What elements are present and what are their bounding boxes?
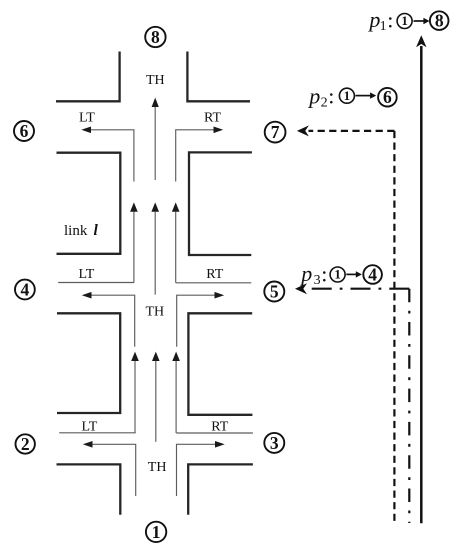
svg-text:1: 1 [401, 13, 408, 28]
svg-text:2: 2 [21, 434, 30, 454]
svg-text:TH: TH [146, 305, 165, 320]
svg-text:7: 7 [271, 122, 280, 142]
svg-text:LT: LT [82, 420, 98, 435]
svg-text:p: p [367, 7, 380, 32]
svg-text:8: 8 [435, 10, 444, 30]
svg-text:link: link [64, 223, 88, 239]
svg-text:1: 1 [152, 522, 161, 542]
svg-text:8: 8 [151, 27, 160, 47]
svg-text:RT: RT [211, 420, 228, 435]
svg-text:l: l [94, 222, 99, 239]
svg-text:LT: LT [79, 111, 95, 126]
svg-text:2: 2 [321, 96, 328, 111]
svg-text:3: 3 [314, 273, 321, 288]
svg-text::: : [387, 7, 393, 32]
svg-text:RT: RT [204, 111, 221, 126]
svg-text:p: p [307, 83, 320, 108]
svg-text:6: 6 [383, 87, 392, 107]
svg-text:1: 1 [344, 88, 351, 103]
svg-text:TH: TH [146, 73, 165, 88]
svg-text:6: 6 [20, 121, 29, 141]
svg-text:LT: LT [79, 267, 95, 282]
svg-text:1: 1 [380, 19, 387, 34]
svg-text:4: 4 [368, 264, 377, 284]
svg-text:3: 3 [270, 433, 279, 453]
svg-text:p: p [299, 261, 312, 286]
svg-text::: : [328, 84, 334, 109]
svg-text:4: 4 [21, 280, 30, 300]
svg-text:1: 1 [334, 267, 341, 282]
svg-text:TH: TH [148, 460, 167, 475]
svg-text::: : [321, 261, 327, 286]
svg-text:RT: RT [206, 267, 223, 282]
svg-text:5: 5 [270, 282, 279, 302]
